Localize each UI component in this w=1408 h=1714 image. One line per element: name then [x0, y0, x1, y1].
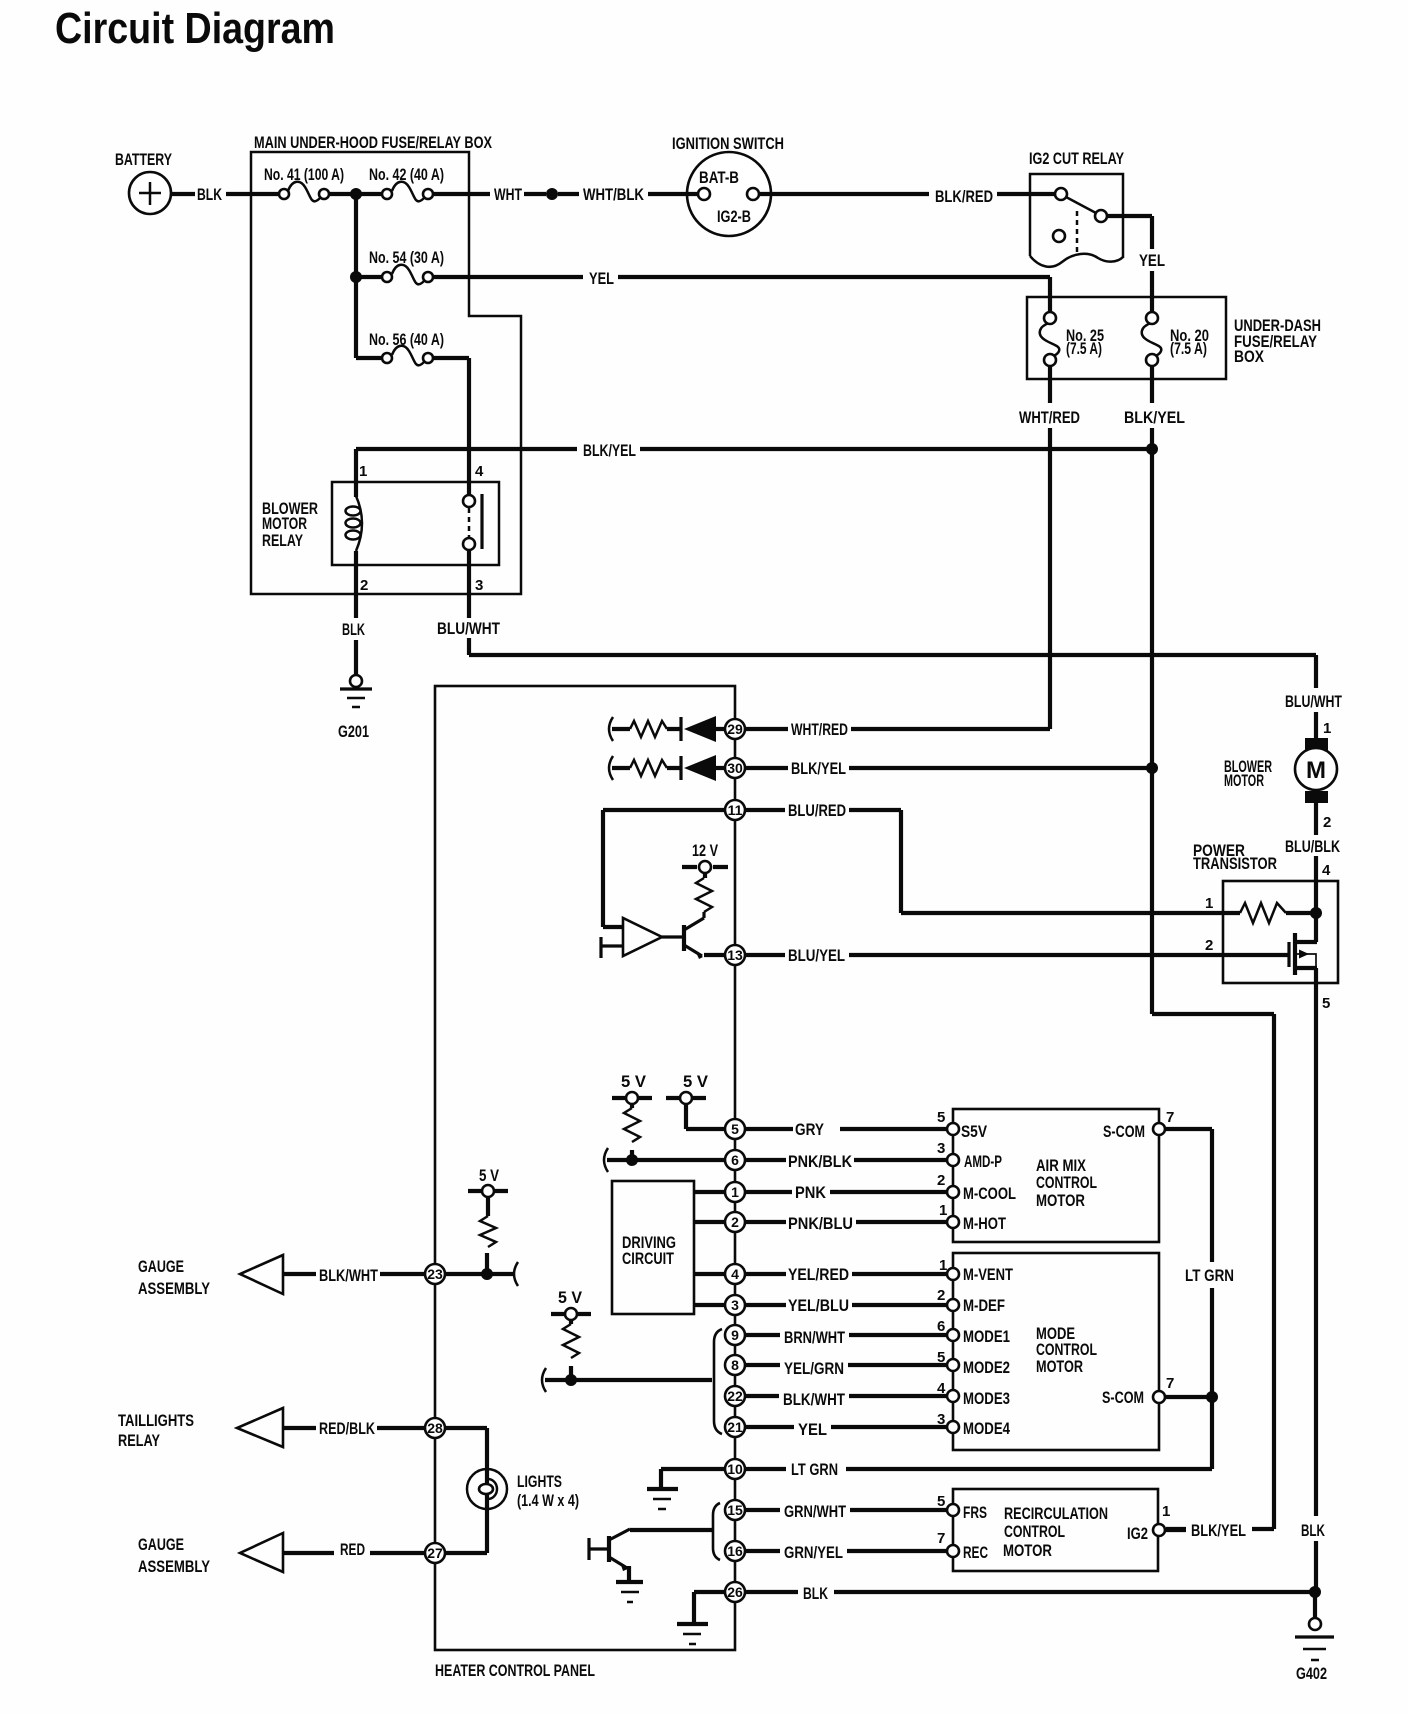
svg-text:27: 27 [427, 1545, 443, 1561]
svg-text:BLK/YEL: BLK/YEL [1124, 409, 1185, 427]
svg-text:MOTOR: MOTOR [262, 515, 307, 533]
svg-text:ASSEMBLY: ASSEMBLY [138, 1558, 210, 1576]
svg-text:M: M [1306, 757, 1326, 784]
svg-text:CONTROL: CONTROL [1036, 1174, 1097, 1192]
svg-text:RED: RED [340, 1541, 365, 1559]
svg-text:5: 5 [1322, 995, 1330, 1012]
svg-text:BLK/RED: BLK/RED [935, 188, 993, 206]
svg-text:2: 2 [1205, 937, 1213, 954]
svg-text:BLU/WHT: BLU/WHT [437, 620, 500, 638]
svg-text:(7.5 A): (7.5 A) [1066, 340, 1102, 358]
svg-text:PNK/BLU: PNK/BLU [788, 1215, 853, 1233]
svg-text:MAIN UNDER-HOOD FUSE/RELAY BOX: MAIN UNDER-HOOD FUSE/RELAY BOX [254, 134, 492, 152]
svg-text:23: 23 [427, 1266, 443, 1282]
svg-text:29: 29 [727, 721, 743, 737]
svg-text:RELAY: RELAY [118, 1432, 160, 1450]
svg-text:CIRCUIT: CIRCUIT [622, 1250, 674, 1268]
svg-text:TAILLIGHTS: TAILLIGHTS [118, 1412, 194, 1430]
svg-text:BLK: BLK [342, 621, 365, 639]
svg-text:TRANSISTOR: TRANSISTOR [1193, 855, 1277, 873]
svg-text:MOTOR: MOTOR [1224, 772, 1264, 790]
svg-text:G402: G402 [1296, 1665, 1327, 1683]
svg-text:M-VENT: M-VENT [963, 1266, 1013, 1284]
svg-text:(1.4 W x 4): (1.4 W x 4) [517, 1492, 579, 1510]
svg-text:LT GRN: LT GRN [791, 1461, 838, 1479]
svg-text:HEATER CONTROL PANEL: HEATER CONTROL PANEL [435, 1662, 595, 1680]
svg-text:FRS: FRS [963, 1504, 987, 1522]
svg-text:BATTERY: BATTERY [115, 151, 172, 169]
svg-text:BLU/WHT: BLU/WHT [1285, 693, 1342, 711]
svg-text:1: 1 [731, 1184, 739, 1200]
svg-text:3: 3 [731, 1297, 739, 1313]
svg-text:YEL: YEL [1139, 252, 1165, 270]
svg-text:S5V: S5V [961, 1123, 987, 1141]
svg-text:AMD-P: AMD-P [964, 1153, 1002, 1171]
svg-text:GAUGE: GAUGE [138, 1536, 184, 1554]
svg-text:M-COOL: M-COOL [963, 1185, 1016, 1203]
svg-text:WHT/RED: WHT/RED [1019, 409, 1080, 427]
svg-text:REC: REC [963, 1544, 988, 1562]
svg-text:YEL/GRN: YEL/GRN [784, 1360, 844, 1378]
svg-text:5: 5 [937, 1109, 945, 1126]
svg-text:LIGHTS: LIGHTS [517, 1473, 562, 1491]
svg-text:CONTROL: CONTROL [1036, 1341, 1097, 1359]
svg-text:6: 6 [731, 1152, 739, 1168]
svg-text:30: 30 [727, 760, 743, 776]
svg-text:5 V: 5 V [683, 1073, 708, 1091]
svg-text:2: 2 [360, 577, 368, 594]
svg-text:1: 1 [939, 1202, 947, 1219]
svg-text:1: 1 [1323, 720, 1331, 737]
svg-text:IG2 CUT RELAY: IG2 CUT RELAY [1029, 150, 1124, 168]
svg-text:No. 54 (30 A): No. 54 (30 A) [369, 249, 444, 267]
svg-text:1: 1 [359, 463, 367, 480]
svg-text:M-HOT: M-HOT [963, 1215, 1006, 1233]
svg-text:YEL: YEL [798, 1421, 827, 1439]
svg-text:RED/BLK: RED/BLK [319, 1420, 375, 1438]
svg-text:7: 7 [1166, 1375, 1174, 1392]
svg-text:MOTOR: MOTOR [1003, 1542, 1052, 1560]
svg-text:BLU/YEL: BLU/YEL [788, 947, 845, 965]
svg-text:Circuit Diagram: Circuit Diagram [55, 4, 335, 53]
svg-text:MOTOR: MOTOR [1036, 1358, 1083, 1376]
svg-text:5: 5 [937, 1493, 945, 1510]
svg-text:6: 6 [937, 1318, 945, 1335]
svg-text:11: 11 [728, 802, 743, 818]
svg-text:BOX: BOX [1234, 348, 1264, 366]
svg-text:BRN/WHT: BRN/WHT [784, 1329, 845, 1347]
svg-text:4: 4 [1322, 862, 1331, 879]
svg-text:5: 5 [937, 1349, 945, 1366]
svg-text:7: 7 [937, 1530, 945, 1547]
svg-text:S-COM: S-COM [1102, 1389, 1144, 1407]
svg-text:2: 2 [937, 1287, 945, 1304]
svg-text:No. 41 (100 A): No. 41 (100 A) [264, 166, 344, 184]
svg-text:21: 21 [727, 1419, 743, 1435]
svg-text:2: 2 [937, 1172, 945, 1189]
svg-text:5 V: 5 V [558, 1289, 582, 1307]
svg-text:7: 7 [1166, 1109, 1174, 1126]
svg-text:PNK/BLK: PNK/BLK [788, 1153, 852, 1171]
svg-text:3: 3 [475, 577, 483, 594]
svg-text:5 V: 5 V [621, 1073, 646, 1091]
svg-text:15: 15 [727, 1502, 743, 1518]
svg-text:GAUGE: GAUGE [138, 1258, 184, 1276]
svg-text:MODE4: MODE4 [963, 1420, 1011, 1438]
svg-text:MOTOR: MOTOR [1036, 1192, 1085, 1210]
svg-text:10: 10 [727, 1461, 743, 1477]
svg-text:MODE3: MODE3 [963, 1390, 1010, 1408]
svg-text:PNK: PNK [795, 1184, 826, 1202]
svg-text:YEL/BLU: YEL/BLU [788, 1297, 849, 1315]
svg-text:BLK: BLK [803, 1585, 828, 1603]
svg-text:YEL: YEL [589, 270, 614, 288]
svg-text:BLK: BLK [1301, 1522, 1325, 1540]
svg-text:MODE1: MODE1 [963, 1328, 1010, 1346]
svg-text:ASSEMBLY: ASSEMBLY [138, 1280, 210, 1298]
svg-text:26: 26 [727, 1584, 743, 1600]
svg-text:3: 3 [937, 1411, 945, 1428]
svg-text:IGNITION SWITCH: IGNITION SWITCH [672, 135, 784, 153]
svg-text:3: 3 [937, 1140, 945, 1157]
svg-text:(7.5 A): (7.5 A) [1170, 340, 1207, 358]
svg-text:1: 1 [1205, 895, 1213, 912]
svg-text:GRY: GRY [795, 1121, 824, 1139]
svg-text:WHT/BLK: WHT/BLK [583, 186, 644, 204]
svg-text:BLU/RED: BLU/RED [788, 802, 846, 820]
svg-text:28: 28 [427, 1420, 443, 1436]
svg-text:IG2-B: IG2-B [717, 208, 751, 226]
svg-text:BLK: BLK [197, 186, 222, 204]
svg-text:13: 13 [727, 947, 743, 963]
svg-text:5 V: 5 V [479, 1167, 499, 1185]
svg-text:S-COM: S-COM [1103, 1123, 1145, 1141]
svg-text:BLK/YEL: BLK/YEL [1191, 1522, 1246, 1540]
svg-text:MODE2: MODE2 [963, 1359, 1010, 1377]
svg-text:1: 1 [1162, 1503, 1170, 1520]
svg-text:No. 42 (40 A): No. 42 (40 A) [369, 166, 444, 184]
svg-text:8: 8 [731, 1357, 739, 1373]
svg-text:4: 4 [731, 1266, 739, 1282]
svg-text:12 V: 12 V [692, 842, 718, 860]
svg-text:2: 2 [1323, 814, 1331, 831]
svg-text:BLK/WHT: BLK/WHT [319, 1267, 378, 1285]
svg-text:CONTROL: CONTROL [1004, 1523, 1065, 1541]
svg-text:M-DEF: M-DEF [963, 1297, 1005, 1315]
svg-text:BLU/BLK: BLU/BLK [1285, 838, 1340, 856]
svg-text:YEL/RED: YEL/RED [788, 1266, 849, 1284]
svg-text:4: 4 [937, 1380, 946, 1397]
svg-text:GRN/WHT: GRN/WHT [784, 1503, 846, 1521]
svg-text:BLK/WHT: BLK/WHT [783, 1391, 845, 1409]
svg-text:G201: G201 [338, 723, 369, 741]
svg-text:1: 1 [939, 1257, 947, 1274]
svg-text:22: 22 [727, 1388, 743, 1404]
svg-text:GRN/YEL: GRN/YEL [784, 1544, 843, 1562]
svg-text:BLK/YEL: BLK/YEL [791, 760, 846, 778]
svg-text:BLK/YEL: BLK/YEL [583, 442, 636, 460]
svg-text:IG2: IG2 [1127, 1525, 1148, 1543]
svg-text:No. 56 (40 A): No. 56 (40 A) [369, 331, 444, 349]
svg-text:4: 4 [475, 463, 484, 480]
svg-text:2: 2 [731, 1214, 739, 1230]
svg-text:AIR MIX: AIR MIX [1036, 1157, 1086, 1175]
svg-text:5: 5 [731, 1121, 739, 1137]
svg-text:BAT-B: BAT-B [699, 169, 739, 187]
svg-text:9: 9 [731, 1327, 739, 1343]
svg-text:WHT/RED: WHT/RED [791, 721, 848, 739]
svg-text:RELAY: RELAY [262, 532, 303, 550]
svg-text:16: 16 [727, 1543, 743, 1559]
svg-text:LT GRN: LT GRN [1185, 1267, 1234, 1285]
svg-text:WHT: WHT [494, 186, 522, 204]
svg-text:RECIRCULATION: RECIRCULATION [1004, 1505, 1108, 1523]
